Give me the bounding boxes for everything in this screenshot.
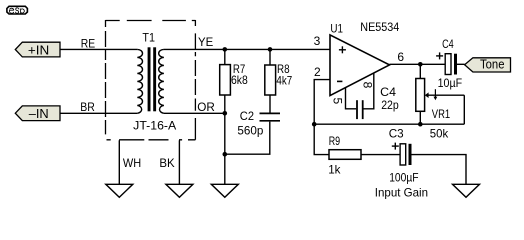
svg-text:C2: C2 bbox=[240, 109, 254, 123]
transformer T1 core bbox=[148, 47, 156, 111]
wire C2 bottom lead bbox=[225, 122, 270, 155]
resistor R9 bbox=[329, 150, 361, 160]
capacitor C4 comp bbox=[357, 100, 363, 119]
svg-text:100µF: 100µF bbox=[389, 170, 418, 184]
potentiometer VR1 bbox=[416, 79, 425, 112]
svg-text:BR: BR bbox=[80, 100, 95, 114]
wire R7 top lead bbox=[224, 49, 226, 64]
wire pin 8 lead bbox=[364, 73, 374, 109]
svg-text:3: 3 bbox=[314, 34, 321, 48]
svg-text:NE5534: NE5534 bbox=[360, 20, 399, 34]
wire OR node to ground bbox=[224, 113, 226, 184]
svg-text:8: 8 bbox=[360, 82, 374, 89]
wire R9 to C3 bbox=[361, 154, 400, 156]
svg-text:22p: 22p bbox=[381, 98, 399, 112]
wire R7 bottom lead bbox=[224, 95, 226, 113]
transformer T1 shield dashed box bbox=[106, 20, 196, 140]
svg-text:–IN: –IN bbox=[29, 106, 49, 121]
port Tone bbox=[465, 57, 511, 72]
svg-text:50k: 50k bbox=[430, 126, 449, 140]
wire +IN to T1 primary bbox=[60, 48, 137, 50]
port +IN bbox=[15, 42, 60, 57]
svg-text:Tone: Tone bbox=[480, 57, 505, 72]
svg-text:4k7: 4k7 bbox=[276, 73, 292, 87]
wire WH shield lead bbox=[118, 140, 120, 184]
svg-text:6: 6 bbox=[397, 50, 404, 64]
ESP logo bbox=[7, 6, 28, 14]
resistor R7 bbox=[220, 65, 231, 95]
ground BK bbox=[166, 184, 193, 197]
wire node B to R9 bbox=[314, 124, 329, 154]
svg-text:560p: 560p bbox=[237, 123, 263, 137]
svg-text:YE: YE bbox=[198, 35, 213, 49]
wire pin 2 feedback bbox=[314, 80, 330, 125]
svg-text:R9: R9 bbox=[329, 134, 341, 148]
svg-text:VR1: VR1 bbox=[432, 107, 451, 121]
wire BK shield lead bbox=[178, 140, 180, 184]
capacitor C3 electrolytic bbox=[400, 144, 411, 165]
node R8 top bbox=[268, 47, 273, 52]
wire VR1 bottom lead bbox=[419, 111, 421, 124]
node C2 return bbox=[223, 152, 228, 157]
node B feedback bbox=[312, 122, 317, 127]
wire C4 to Tone bbox=[457, 63, 465, 65]
wire C3 to ground bbox=[412, 155, 467, 185]
svg-text:Input Gain: Input Gain bbox=[375, 186, 428, 200]
plus C4 output bbox=[436, 52, 443, 59]
wire YE secondary to pin 3 bbox=[164, 48, 330, 50]
svg-text:RE: RE bbox=[81, 36, 95, 50]
op-amp plus input marker bbox=[339, 46, 346, 53]
svg-text:10µF: 10µF bbox=[438, 76, 463, 90]
node VR1 bottom bbox=[418, 122, 423, 127]
svg-text:6k8: 6k8 bbox=[231, 73, 248, 87]
wire feedback rail bbox=[314, 123, 464, 125]
svg-text:T1: T1 bbox=[142, 30, 155, 44]
svg-text:C3: C3 bbox=[389, 127, 404, 141]
svg-text:5: 5 bbox=[330, 97, 344, 104]
svg-text:BK: BK bbox=[159, 156, 174, 170]
port -IN bbox=[15, 106, 60, 121]
node R7 bottom / OR bbox=[223, 111, 228, 116]
svg-text:U1: U1 bbox=[330, 22, 343, 36]
svg-text:2: 2 bbox=[314, 65, 321, 79]
wire VR1 top lead bbox=[419, 64, 421, 78]
ground OR node bbox=[211, 184, 238, 197]
node R7 top bbox=[223, 47, 228, 52]
svg-text:+IN: +IN bbox=[28, 42, 49, 57]
wire -IN to T1 primary bbox=[60, 112, 137, 114]
op-amp U1 bbox=[330, 35, 390, 96]
svg-text:JT-16-A: JT-16-A bbox=[133, 119, 176, 133]
ground WH bbox=[106, 184, 133, 197]
wire OR secondary return bbox=[164, 112, 225, 114]
svg-text:OR: OR bbox=[197, 100, 215, 114]
transformer T1 primary winding bbox=[137, 49, 142, 113]
wire R8 top lead bbox=[269, 49, 271, 65]
wire pin 5 lead bbox=[346, 88, 357, 109]
op-amp minus input marker bbox=[337, 80, 342, 82]
transformer T1 secondary winding bbox=[159, 49, 164, 113]
capacitor C4 output electrolytic bbox=[445, 54, 457, 75]
wire R8 to C2 bbox=[269, 95, 271, 113]
wire VR1 wiper to rail bbox=[463, 95, 465, 124]
capacitor C2 bbox=[260, 113, 281, 120]
resistor R8 bbox=[265, 65, 276, 95]
svg-text:C4: C4 bbox=[442, 37, 454, 51]
ground C3 bbox=[453, 184, 480, 197]
wire pin 6 output bbox=[390, 63, 446, 65]
plus C3 bbox=[392, 143, 399, 150]
VR1 wiper arrow bbox=[425, 89, 465, 100]
node output bbox=[418, 62, 423, 67]
svg-text:1k: 1k bbox=[328, 162, 341, 176]
svg-text:WH: WH bbox=[123, 156, 141, 170]
